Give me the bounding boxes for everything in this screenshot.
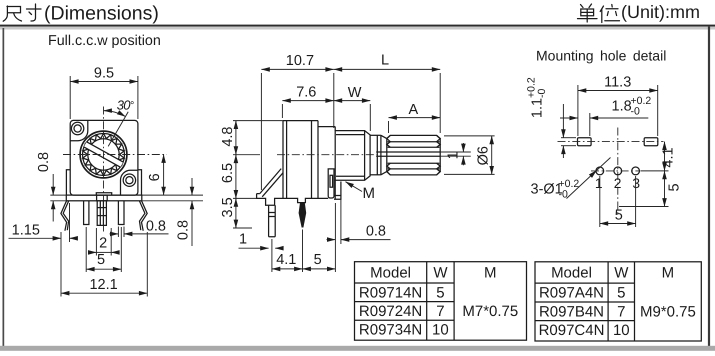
dimension 1.1 with tolerance [526, 77, 577, 158]
vertical centerline front view [103, 107, 105, 232]
horizontal centerline front view [63, 154, 167, 156]
svg-text:5: 5 [436, 284, 444, 301]
svg-text:(Unit):mm: (Unit):mm [621, 2, 700, 22]
svg-text:0.8: 0.8 [176, 220, 192, 240]
dimension 7.6 [282, 85, 333, 119]
svg-text:A: A [408, 102, 418, 118]
knob outer circle [80, 131, 127, 178]
svg-text:-0: -0 [631, 106, 640, 118]
svg-text:5: 5 [617, 285, 625, 302]
svg-text:7: 7 [617, 303, 625, 320]
dimension 0.8 right flange [142, 178, 203, 246]
mounting face plate [334, 127, 341, 200]
dimension diameter 6 [444, 136, 495, 175]
svg-text:3.5: 3.5 [220, 197, 236, 217]
knurl flute lines [388, 142, 440, 169]
dimension 5 right [619, 171, 683, 207]
bent support leg right [139, 201, 147, 231]
dimension 5 bottom holes [600, 176, 636, 227]
svg-text:W: W [348, 85, 362, 101]
dimension 4.1 right [661, 142, 677, 171]
terminal pin middle (front) [97, 201, 106, 226]
dimension 5 pins [86, 227, 121, 272]
support wedge diagonals [260, 169, 283, 197]
side middle pin (kinked, filled) [299, 203, 307, 228]
shaft base [370, 135, 387, 175]
screwdriver slot [84, 142, 123, 167]
bottom flange [66, 195, 142, 201]
bottom-right ear hole [123, 174, 135, 186]
svg-text:5: 5 [314, 252, 322, 268]
dimension 1 slot width [446, 143, 464, 165]
flange top bump [96, 193, 111, 195]
svg-text:12.1: 12.1 [89, 277, 117, 293]
svg-text:30°: 30° [117, 98, 134, 113]
side pin 1 [269, 205, 276, 237]
dimension 1.15 bottom left [9, 203, 78, 242]
svg-text:M: M [484, 265, 497, 282]
top-left ear hole [71, 122, 83, 134]
svg-text:(Dimensions): (Dimensions) [44, 3, 159, 25]
svg-text:5: 5 [667, 183, 683, 191]
threaded bushing [335, 131, 370, 181]
mounting slot right [644, 138, 658, 146]
dimension 1 pin width side [239, 232, 284, 249]
right side tab [138, 170, 142, 195]
svg-text:4.8: 4.8 [220, 127, 236, 147]
svg-text:7.6: 7.6 [296, 85, 316, 101]
terminal pin right (front) [118, 201, 124, 225]
svg-text:1: 1 [595, 176, 603, 191]
hole 3 [632, 167, 640, 175]
svg-text:M: M [662, 265, 675, 282]
svg-text:L: L [381, 53, 389, 69]
svg-text:1.1: 1.1 [530, 98, 546, 118]
side view bottom profile with pin bosses [257, 194, 329, 206]
slots horizontal centerline [558, 141, 664, 143]
table 1 R097x4N [355, 262, 527, 341]
anti-rotation tab [328, 169, 334, 198]
svg-text:0.8: 0.8 [366, 223, 386, 239]
svg-text:7: 7 [436, 303, 444, 320]
bent support leg left [61, 201, 69, 231]
bottom gray band [0, 346, 715, 351]
svg-text:1: 1 [239, 232, 247, 248]
svg-text:M: M [363, 185, 376, 202]
svg-text:9.5: 9.5 [94, 66, 114, 82]
side view body block [283, 121, 335, 199]
terminal pin left (front) [84, 201, 89, 225]
front view body housing [70, 120, 138, 195]
top rule gray shadow [0, 27, 715, 30]
table 2 R097x4N metric [535, 262, 701, 341]
svg-text:R097B4N: R097B4N [539, 303, 604, 320]
vertical centerline [617, 128, 619, 215]
label 3-dia1 with tolerance and leader [531, 158, 611, 201]
svg-text:2: 2 [614, 176, 622, 191]
knob serration teeth [83, 134, 124, 176]
svg-text:-0: -0 [536, 89, 548, 98]
knurl end chevrons [387, 135, 440, 175]
svg-text:10.7: 10.7 [286, 53, 314, 69]
svg-text:10: 10 [432, 322, 449, 339]
dimension 6 right [142, 155, 203, 196]
dimension 10.7 [261, 53, 333, 190]
dimension L [334, 53, 440, 134]
hole labels 1 2 3 [595, 176, 641, 191]
M label with leader [346, 182, 376, 202]
dimension 1.8 with tolerance [560, 95, 651, 136]
svg-text:Mounting hole detail: Mounting hole detail [536, 48, 666, 64]
hole 2 [614, 167, 622, 175]
svg-text:5: 5 [97, 252, 105, 268]
svg-text:-0: -0 [559, 189, 568, 201]
knurled shaft outline [387, 135, 440, 175]
dimension 9.5 top [70, 66, 138, 120]
svg-text:2: 2 [99, 236, 107, 252]
svg-text:R097A4N: R097A4N [539, 285, 604, 302]
middle pin box in flange [97, 195, 108, 201]
svg-text:M7*0.75: M7*0.75 [462, 303, 518, 320]
hole row centerline [591, 170, 669, 172]
left chain dimensions 4.8 6.5 3.5 [220, 121, 283, 228]
dimension W [334, 85, 371, 131]
svg-text:Model: Model [551, 265, 592, 282]
svg-text:4.1: 4.1 [276, 252, 296, 268]
dimension 12.1 overall [61, 232, 147, 297]
top rule dark [0, 25, 715, 27]
svg-text:R09734N: R09734N [359, 322, 422, 339]
dimension 0.8 plate thickness [327, 199, 391, 244]
svg-text:W: W [614, 265, 629, 282]
svg-text:Model: Model [370, 265, 411, 282]
svg-text:6: 6 [147, 173, 163, 181]
dimension 11.3 [578, 75, 658, 137]
left side tab [66, 170, 70, 195]
dimension A [389, 102, 441, 133]
svg-text:1.8: 1.8 [612, 99, 632, 115]
svg-text:R09724N: R09724N [359, 303, 422, 320]
side view axis centerline [277, 154, 379, 156]
svg-text:1: 1 [446, 151, 462, 159]
svg-text:W: W [433, 265, 448, 282]
svg-text:5: 5 [615, 208, 623, 224]
svg-text:Full.c.c.w position: Full.c.c.w position [48, 33, 161, 49]
left border [3, 28, 5, 347]
svg-text:Ø6: Ø6 [476, 146, 492, 165]
dimension 2 pins [88, 228, 120, 256]
svg-text:11.3: 11.3 [604, 75, 631, 91]
title text Chinese 尺寸 strokes [3, 4, 41, 21]
mounting slot left [578, 138, 592, 146]
knob inner circle [88, 139, 119, 170]
svg-text:R097C4N: R097C4N [539, 322, 605, 339]
svg-text:6.5: 6.5 [220, 163, 236, 183]
svg-text:4.1: 4.1 [661, 147, 677, 167]
svg-text:10: 10 [613, 322, 630, 339]
shaft slot lines [376, 152, 471, 156]
top-left ear pocket [70, 120, 88, 140]
svg-text:0.8: 0.8 [146, 219, 166, 235]
dimensions 4.1 and 5 bottom side [272, 203, 336, 272]
hole 1 [596, 167, 604, 175]
svg-text:R09714N: R09714N [359, 284, 422, 301]
title right Chinese 单位 strokes [578, 4, 620, 23]
knob teeth base ring [83, 134, 125, 176]
dimension 0.8 left flange [36, 152, 66, 222]
right border [708, 27, 710, 348]
svg-text:M9*0.75: M9*0.75 [640, 303, 696, 320]
slot direction indicator line 30deg [108, 112, 128, 147]
dimension 0.8 pin width bottom right [110, 219, 169, 238]
svg-text:0.8: 0.8 [36, 152, 52, 172]
bottom-right ear pocket [121, 170, 138, 195]
svg-text:3: 3 [632, 176, 640, 191]
svg-text:1.15: 1.15 [12, 222, 40, 238]
30 degree arc with arrows [104, 111, 126, 117]
